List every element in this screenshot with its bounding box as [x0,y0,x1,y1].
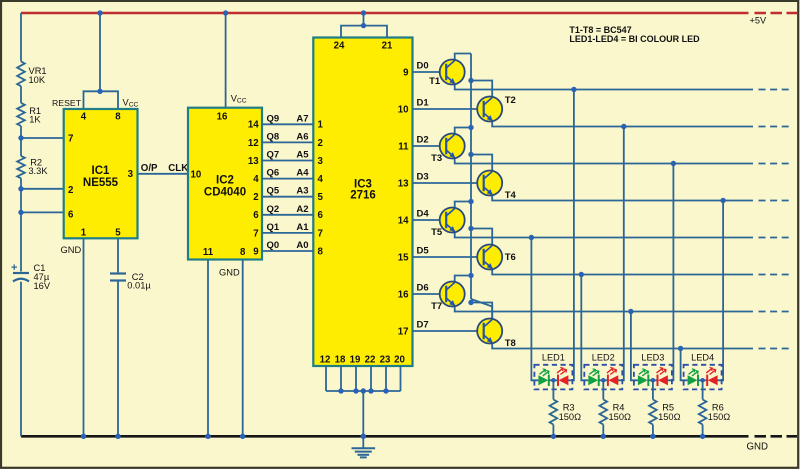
svg-text:2: 2 [253,192,258,203]
svg-text:D0: D0 [417,61,429,72]
svg-text:Q5: Q5 [267,186,280,197]
svg-text:2: 2 [68,185,73,196]
svg-text:6: 6 [68,209,74,220]
svg-text:Q6: Q6 [267,168,280,179]
svg-text:GND: GND [747,442,769,453]
svg-text:+: + [11,262,17,274]
svg-text:A1: A1 [296,222,309,233]
svg-text:8: 8 [318,246,324,257]
svg-text:Q2: Q2 [267,204,280,215]
svg-text:CLK: CLK [168,163,188,174]
svg-text:IC1: IC1 [92,165,111,177]
svg-text:D1: D1 [417,98,430,109]
svg-text:R6: R6 [712,402,724,412]
svg-text:Q9: Q9 [267,113,280,124]
svg-text:CD4040: CD4040 [204,187,246,199]
svg-text:Q8: Q8 [267,131,280,142]
svg-text:17: 17 [398,326,409,337]
svg-text:16V: 16V [34,281,51,291]
svg-text:LED4: LED4 [691,353,714,363]
svg-text:A3: A3 [296,186,308,197]
svg-text:16: 16 [217,112,228,123]
svg-text:A2: A2 [296,204,308,215]
svg-text:13: 13 [248,156,259,167]
svg-text:GND: GND [61,245,82,255]
svg-text:IC2: IC2 [216,175,234,187]
svg-text:1K: 1K [29,114,41,124]
svg-text:23: 23 [380,355,391,366]
svg-text:12: 12 [248,138,259,149]
svg-text:Q1: Q1 [267,222,280,233]
svg-text:GND: GND [219,268,240,278]
svg-text:D3: D3 [417,172,429,183]
svg-text:A4: A4 [296,168,309,179]
svg-text:9: 9 [253,246,259,257]
svg-text:T2: T2 [505,95,516,106]
svg-text:D5: D5 [417,246,430,257]
svg-text:4: 4 [81,111,87,122]
svg-text:7: 7 [68,133,73,144]
svg-text:R3: R3 [563,402,575,412]
svg-text:3: 3 [128,169,134,180]
svg-text:0.01µ: 0.01µ [127,281,151,291]
svg-text:6: 6 [253,210,259,221]
svg-text:3: 3 [318,156,324,167]
svg-text:24: 24 [334,40,345,51]
svg-text:O/P: O/P [141,163,158,174]
svg-text:8: 8 [240,247,246,258]
svg-text:LED1-LED4 = BI COLOUR LED: LED1-LED4 = BI COLOUR LED [569,34,700,44]
svg-text:150Ω: 150Ω [708,412,731,422]
svg-text:150Ω: 150Ω [559,412,582,422]
svg-text:2716: 2716 [350,190,376,202]
svg-text:T6: T6 [505,252,516,263]
svg-text:4: 4 [253,174,259,185]
svg-text:D6: D6 [417,283,429,294]
svg-text:8: 8 [115,111,121,122]
svg-text:T3: T3 [431,153,442,164]
svg-text:LED1: LED1 [542,353,565,363]
svg-text:12: 12 [320,355,331,366]
svg-text:21: 21 [382,40,393,51]
svg-text:6: 6 [318,210,324,221]
svg-text:RESET: RESET [52,98,82,108]
svg-text:A6: A6 [296,131,308,142]
svg-text:NE555: NE555 [83,177,119,189]
svg-text:T4: T4 [505,190,517,201]
svg-text:D7: D7 [417,320,429,331]
svg-text:1: 1 [318,120,324,131]
svg-text:T7: T7 [431,301,442,312]
svg-text:5: 5 [115,227,121,238]
svg-text:10: 10 [398,104,409,115]
svg-text:R5: R5 [662,402,674,412]
svg-text:A5: A5 [296,150,309,161]
svg-text:19: 19 [350,355,361,366]
svg-text:15: 15 [398,252,409,263]
svg-text:11: 11 [203,247,214,258]
svg-text:7: 7 [318,228,323,239]
svg-text:LED3: LED3 [641,353,664,363]
svg-text:D4: D4 [417,209,430,220]
svg-text:Q7: Q7 [267,150,280,161]
svg-text:9: 9 [403,67,409,78]
svg-text:13: 13 [398,178,409,189]
svg-text:150Ω: 150Ω [609,412,632,422]
svg-text:IC3: IC3 [354,179,372,191]
svg-text:7: 7 [253,228,258,239]
svg-text:11: 11 [398,141,409,152]
svg-text:T5: T5 [431,227,443,238]
svg-text:10: 10 [191,169,202,180]
svg-text:18: 18 [335,355,346,366]
svg-text:14: 14 [248,120,259,131]
svg-text:A7: A7 [296,113,308,124]
svg-text:5: 5 [318,192,324,203]
svg-text:4: 4 [318,174,324,185]
svg-text:22: 22 [365,355,376,366]
svg-text:+5V: +5V [750,16,767,26]
svg-text:D2: D2 [417,135,429,146]
svg-text:1: 1 [81,227,87,238]
svg-text:2: 2 [318,138,323,149]
svg-text:T1: T1 [429,76,441,87]
svg-text:LED2: LED2 [592,353,615,363]
svg-text:3.3K: 3.3K [28,166,48,176]
svg-text:A0: A0 [296,240,308,251]
svg-text:Q0: Q0 [267,240,280,251]
svg-text:10K: 10K [29,75,46,85]
svg-text:14: 14 [398,215,409,226]
svg-text:16: 16 [398,289,409,300]
svg-text:150Ω: 150Ω [658,412,681,422]
svg-text:R4: R4 [613,402,625,412]
svg-text:T8: T8 [505,338,516,349]
svg-text:20: 20 [394,355,405,366]
